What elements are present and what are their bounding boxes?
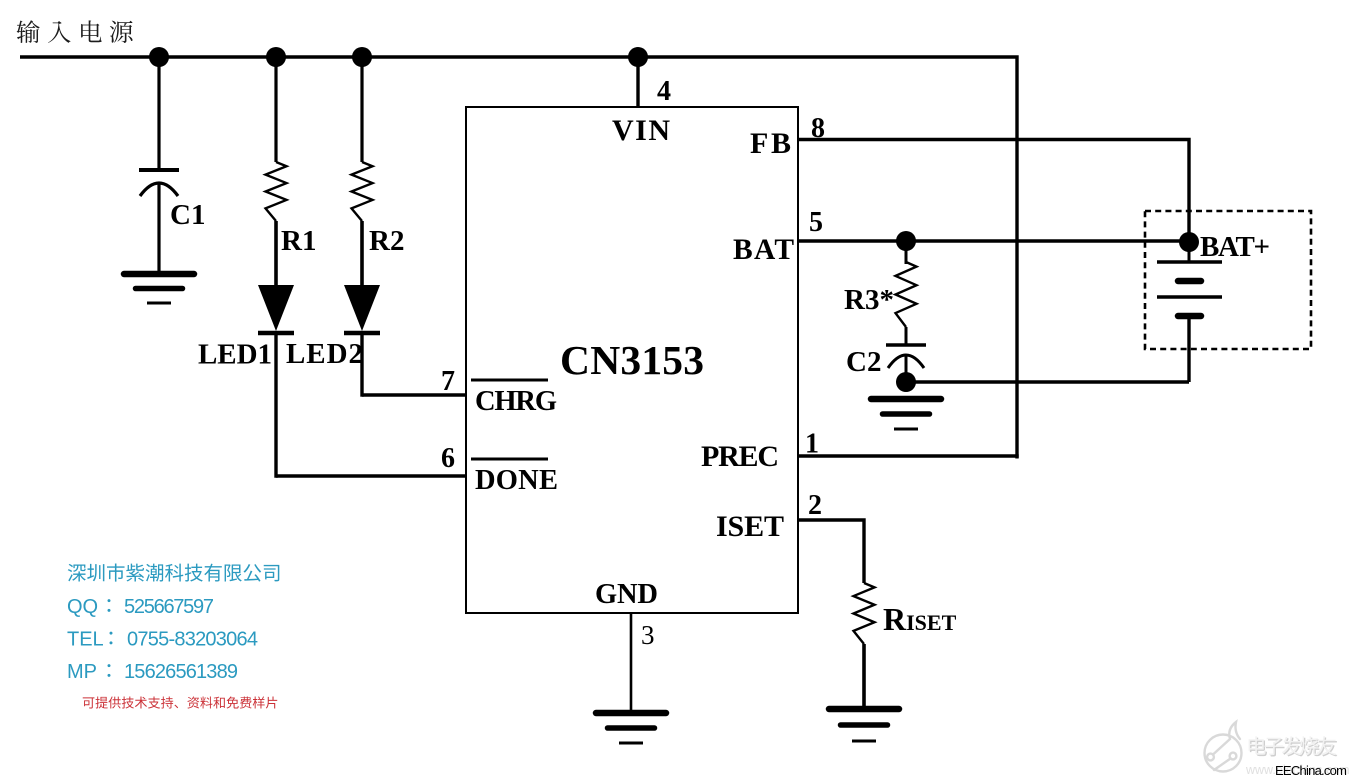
svg-text:7: 7 xyxy=(441,366,455,397)
svg-text:CN3153: CN3153 xyxy=(560,337,704,383)
svg-text:ISET: ISET xyxy=(716,510,784,543)
svg-text:525667597: 525667597 xyxy=(124,596,214,618)
svg-text:R2: R2 xyxy=(369,225,404,257)
svg-text:QQ: QQ xyxy=(67,596,98,618)
svg-text:TEL: TEL xyxy=(67,629,104,651)
svg-text:PREC: PREC xyxy=(701,440,779,473)
svg-text:FB: FB xyxy=(750,127,791,160)
svg-text:C1: C1 xyxy=(170,199,205,231)
svg-text:8: 8 xyxy=(811,113,825,144)
svg-text:R1: R1 xyxy=(281,225,316,257)
svg-text:C2: C2 xyxy=(846,346,881,378)
svg-text:LED1: LED1 xyxy=(198,339,272,371)
svg-text:3: 3 xyxy=(641,620,655,650)
svg-text:1: 1 xyxy=(805,429,819,460)
svg-text:5: 5 xyxy=(809,207,823,238)
svg-text:0755-83203064: 0755-83203064 xyxy=(127,629,258,651)
svg-text:MP: MP xyxy=(67,661,97,683)
svg-text:15626561389: 15626561389 xyxy=(124,661,238,683)
svg-text:CHRG: CHRG xyxy=(475,386,557,417)
svg-text:GND: GND xyxy=(595,579,658,610)
svg-text:EEChina.com: EEChina.com xyxy=(1275,763,1347,778)
svg-text:R3*: R3* xyxy=(844,284,894,316)
svg-text:VIN: VIN xyxy=(612,114,670,147)
svg-text:DONE: DONE xyxy=(475,465,558,496)
svg-text:6: 6 xyxy=(441,443,455,474)
svg-text:4: 4 xyxy=(657,76,671,107)
svg-text:LED2: LED2 xyxy=(286,338,363,370)
svg-text:BAT: BAT xyxy=(733,234,794,266)
svg-text:2: 2 xyxy=(808,490,822,521)
svg-text:BAT+: BAT+ xyxy=(1200,231,1270,263)
